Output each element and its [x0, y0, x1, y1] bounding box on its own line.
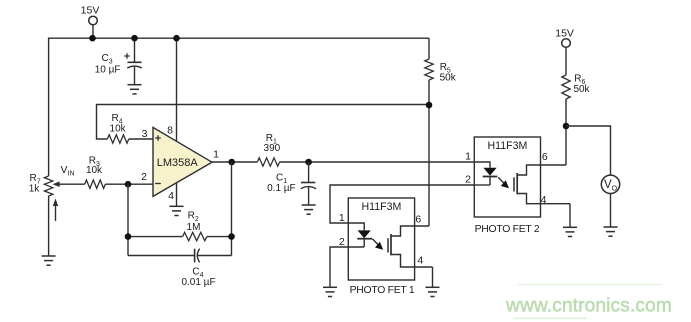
svg-text:www.cntronics.com: www.cntronics.com: [505, 296, 672, 317]
svg-text:50k: 50k: [573, 84, 590, 95]
svg-text:8: 8: [167, 124, 173, 136]
svg-text:PHOTO FET 1: PHOTO FET 1: [350, 285, 415, 296]
svg-text:1M: 1M: [187, 222, 201, 233]
svg-text:H11F3M: H11F3M: [361, 201, 401, 213]
svg-text:1: 1: [465, 151, 471, 163]
svg-text:390: 390: [264, 143, 281, 154]
svg-text:2: 2: [141, 171, 147, 183]
svg-text:1: 1: [339, 212, 345, 224]
svg-text:6: 6: [415, 213, 421, 225]
svg-text:4: 4: [541, 194, 547, 206]
svg-text:50k: 50k: [440, 73, 457, 84]
svg-text:10k: 10k: [86, 165, 103, 176]
svg-text:6: 6: [542, 151, 548, 163]
svg-text:LM358A: LM358A: [157, 157, 199, 169]
svg-text:H11F3M: H11F3M: [487, 140, 527, 152]
svg-text:10 µF: 10 µF: [95, 64, 121, 75]
svg-text:0.1 µF: 0.1 µF: [267, 183, 296, 194]
svg-text:4: 4: [168, 190, 174, 202]
svg-text:2: 2: [339, 236, 345, 248]
svg-text:4: 4: [417, 255, 423, 267]
svg-text:1k: 1k: [29, 184, 41, 195]
svg-text:1: 1: [213, 148, 219, 160]
svg-text:15V: 15V: [555, 27, 574, 39]
svg-text:PHOTO FET 2: PHOTO FET 2: [475, 224, 540, 235]
svg-text:10k: 10k: [110, 124, 127, 135]
svg-text:0.01 µF: 0.01 µF: [181, 277, 215, 288]
svg-text:3: 3: [142, 128, 148, 140]
svg-text:2: 2: [465, 173, 471, 185]
svg-text:15V: 15V: [81, 5, 100, 17]
